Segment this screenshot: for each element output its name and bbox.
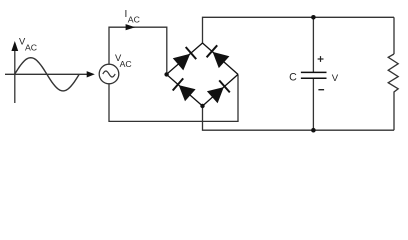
waveform plot vertical axis (11, 41, 18, 103)
bridge diamond edge: left to bottom (167, 74, 203, 106)
bridge diamond edge: left to top (167, 43, 203, 74)
AC source V1 (99, 64, 119, 84)
node: capacitor top junction (311, 15, 316, 20)
node: bridge bottom vertex junction (200, 104, 204, 108)
capacitor C leads (312, 17, 314, 130)
label V_AC (source) (115, 52, 132, 69)
label - (capacitor polarity) (318, 89, 324, 91)
wire: source bottom return from bridge right vertex (109, 74, 238, 121)
svg-text:AC: AC (128, 15, 140, 25)
wire: bridge top vertex up to positive rail (203, 17, 395, 43)
wire: bridge bottom vertex down to negative rail (203, 106, 395, 130)
node: bridge left vertex junction (164, 72, 168, 76)
wire: source top to bridge left vertex (109, 27, 167, 74)
resistor R (load) (388, 17, 398, 130)
diode D3 (lower left, anode at bottom vertex) (173, 78, 196, 101)
diode D4 (lower right, anode at bottom vertex) (207, 80, 230, 103)
svg-text:AC: AC (120, 59, 132, 69)
diode D1 (upper left, anode at left vertex) (173, 47, 196, 70)
capacitor C plates (301, 72, 327, 78)
node: capacitor bottom junction (311, 128, 316, 133)
diode D2 (upper right, anode at right vertex) (207, 45, 230, 68)
svg-text:V: V (332, 73, 339, 84)
label I_AC (125, 9, 140, 25)
bridge diamond edge: bottom to right (203, 74, 239, 106)
label V_AC (input waveform) (19, 35, 37, 52)
current arrowhead I_AC (126, 24, 136, 30)
bridge diamond edge: top to right (203, 43, 239, 74)
svg-text:AC: AC (25, 43, 37, 53)
waveform plot horizontal axis with time arrow (5, 71, 95, 77)
label + (capacitor polarity) (318, 56, 324, 62)
input sine waveform (15, 58, 80, 91)
svg-text:C: C (289, 71, 297, 83)
